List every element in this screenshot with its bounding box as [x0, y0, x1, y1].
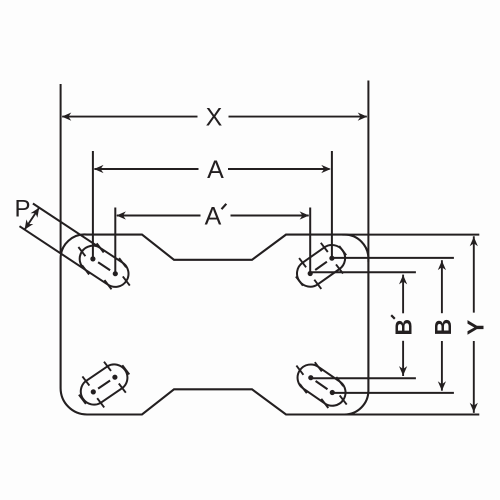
slotted hole top-right outline: [297, 245, 345, 287]
X extension line left: [60, 84, 62, 254]
hole center dot 1 of top-left: [90, 256, 95, 261]
X dimension line left segment: [62, 116, 197, 118]
A-prime dimension line left segment: [117, 215, 201, 217]
A-prime dimension line right segment: [231, 215, 309, 217]
hole center dot 2 of bottom-left: [112, 375, 117, 380]
mounting plate outline: [61, 234, 369, 414]
slotted hole top-left outline: [80, 246, 129, 287]
slot bottom-right centreline tick 3: [315, 362, 322, 371]
A arrowhead right: [321, 165, 331, 173]
slot top-right centreline tick 4: [314, 280, 321, 289]
P extension line lower (slot side extended): [20, 226, 86, 270]
slot top-left centreline tick 3: [105, 280, 112, 289]
B-prime arrowhead top: [399, 275, 407, 285]
slot bottom-left centreline tick 3: [119, 384, 126, 393]
B-prime arrowhead bottom: [399, 366, 407, 376]
slot bottom-right dashed centreline: [316, 381, 328, 389]
hole center dot 1 of bottom-right: [330, 390, 335, 395]
slotted hole bottom-right outline: [298, 364, 346, 405]
slot top-left centreline tick 2: [97, 243, 104, 252]
A extension line left: [92, 151, 94, 259]
B extension line top: [332, 257, 454, 259]
slot top-right dashed centreline: [315, 262, 327, 270]
svg-text:Y: Y: [462, 320, 488, 335]
svg-text:A: A: [207, 156, 224, 184]
Y dimension line upper segment: [473, 236, 475, 312]
A dimension line right segment: [228, 168, 330, 170]
slot bottom-right centreline tick 1: [336, 377, 343, 386]
A-prime extension line right: [309, 208, 311, 274]
B dimension line lower segment: [441, 341, 443, 391]
X extension line right: [367, 81, 369, 263]
B-prime dimension line upper segment: [402, 275, 404, 314]
A arrowhead left: [94, 165, 104, 173]
B arrowhead bottom: [438, 381, 446, 391]
B arrowhead top: [438, 261, 446, 271]
slot top-right centreline tick 5: [339, 246, 346, 255]
hole center dot 1 of top-right: [329, 256, 334, 261]
slot bottom-right centreline tick 5: [340, 395, 347, 404]
Y dimension line lower segment: [473, 341, 475, 413]
slot bottom-left centreline tick 6: [122, 365, 129, 374]
slot bottom-right centreline tick 2: [321, 399, 328, 408]
slot top-right centreline tick 3: [299, 258, 306, 267]
slot top-left centreline tick 4: [119, 258, 126, 267]
B-prime dimension line lower segment: [402, 341, 404, 376]
A-prime arrowhead right: [300, 211, 310, 219]
slot bottom-right centreline tick 6: [296, 366, 303, 375]
prime tick of A label: [222, 204, 227, 209]
B extension line bottom: [332, 392, 454, 394]
Y extension line bottom (plate bottom edge extended): [342, 414, 479, 416]
slot top-left centreline tick 1: [82, 265, 89, 274]
X arrowhead right: [358, 113, 368, 121]
slot top-right centreline tick 6: [296, 277, 303, 286]
svg-text:B: B: [430, 319, 456, 336]
Y extension line top (plate top edge extended): [342, 234, 479, 236]
X dimension line right segment: [229, 116, 367, 118]
slot top-left dashed centreline: [98, 262, 110, 270]
X arrowhead left: [62, 113, 72, 121]
slot bottom-left centreline tick 5: [79, 395, 86, 404]
svg-text:A: A: [205, 203, 222, 231]
A dimension line left segment: [94, 168, 198, 170]
hole center dot 2 of top-right: [308, 271, 313, 276]
slot bottom-left centreline tick 4: [104, 362, 111, 371]
hole center dot 1 of bottom-left: [91, 389, 96, 394]
slot top-right centreline tick 2: [336, 264, 343, 273]
slot bottom-right centreline tick 4: [300, 384, 307, 393]
slot top-left centreline tick 5: [78, 247, 85, 256]
P extension line upper (slot side extended): [33, 204, 100, 248]
A extension line right: [331, 151, 333, 258]
slot top-left centreline tick 6: [123, 276, 130, 285]
hole center dot 2 of bottom-right: [308, 375, 313, 380]
svg-text:P: P: [14, 195, 30, 222]
slot bottom-left dashed centreline: [98, 381, 110, 389]
slotted hole bottom-left outline: [81, 364, 128, 404]
slot bottom-left centreline tick 2: [82, 376, 89, 385]
slot top-right centreline tick 1: [321, 243, 328, 252]
slot bottom-left centreline tick 1: [97, 398, 104, 407]
B-prime extension line bottom: [311, 377, 416, 379]
svg-text:B: B: [391, 319, 417, 336]
B dimension line upper segment: [441, 260, 443, 313]
P arrowhead lower: [25, 219, 34, 229]
Y arrowhead top: [470, 237, 478, 247]
B-prime extension line top: [310, 271, 416, 273]
P arrowhead upper: [31, 208, 40, 218]
prime tick of B label: [391, 315, 395, 319]
A-prime arrowhead left: [116, 211, 126, 219]
A-prime extension line left: [114, 208, 116, 274]
hole center dot 2 of top-left: [113, 271, 118, 276]
Y arrowhead bottom: [470, 403, 478, 413]
svg-text:X: X: [206, 104, 223, 132]
P dimension double-arrow line: [25, 208, 40, 230]
